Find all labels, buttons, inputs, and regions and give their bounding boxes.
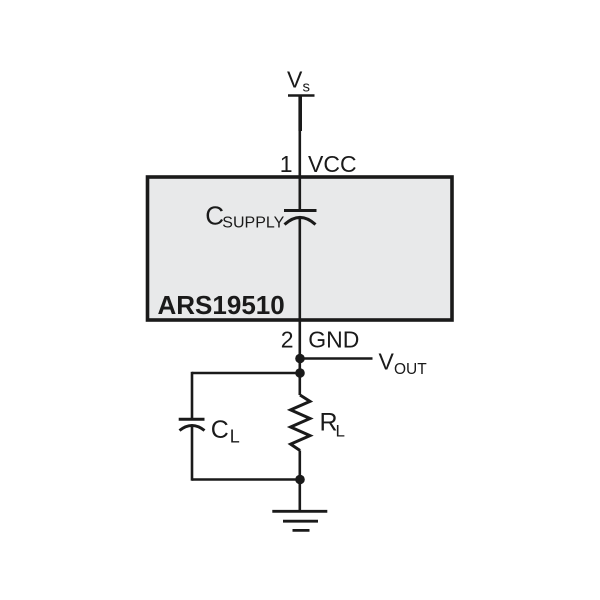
svg-text:GND: GND <box>308 327 359 353</box>
svg-text:L: L <box>230 427 240 447</box>
svg-text:s: s <box>303 79 311 96</box>
svg-text:2: 2 <box>281 327 294 353</box>
svg-text:C: C <box>211 416 229 444</box>
svg-text:VCC: VCC <box>308 151 357 177</box>
svg-text:V: V <box>379 349 395 375</box>
svg-text:1: 1 <box>280 151 293 177</box>
svg-text:OUT: OUT <box>394 361 427 378</box>
svg-text:L: L <box>336 422 345 441</box>
svg-text:SUPPLY: SUPPLY <box>222 215 284 232</box>
svg-text:ARS19510: ARS19510 <box>158 290 285 320</box>
svg-text:C: C <box>205 201 224 231</box>
svg-text:V: V <box>287 67 303 93</box>
